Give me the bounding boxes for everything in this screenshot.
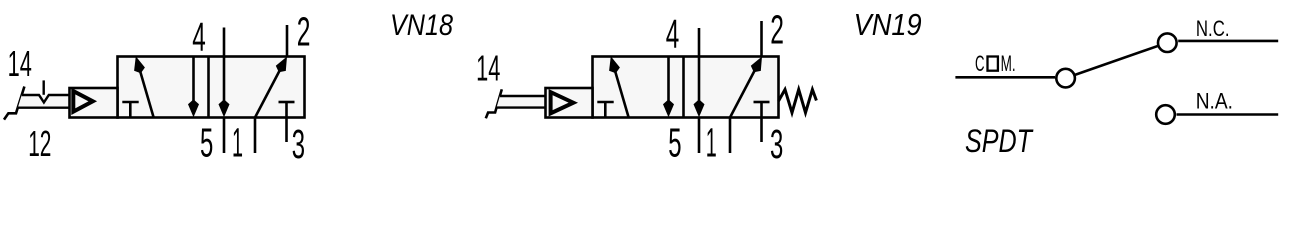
valve V2 left box vertical flow arrow [663,57,674,118]
valve V1 port 4 label [192,14,206,60]
svg-text:VN18: VN18 [390,9,453,42]
valve V1 position divider [207,57,210,118]
valve V2 right box diagonal flow arrow (1 to 2) [730,57,762,118]
valve V2 port 3 label [770,121,783,167]
svg-text:14: 14 [8,43,32,84]
valve V2 pilot port 14 label [476,48,500,89]
valve V2 left box blocked port T [597,102,613,118]
valve V2 port 2 stub [760,21,763,57]
svg-text:N.C.: N.C. [1196,16,1230,41]
valve V2 port 4 stub [698,28,701,57]
svg-text:SPDT: SPDT [965,123,1034,159]
valve V1 port 5 stub [223,118,226,154]
svg-text:VN19: VN19 [854,7,922,42]
svg-text:C: C [975,51,985,76]
svg-text:N.A.: N.A. [1196,88,1233,113]
valve V1 plunger bar with detent notch [18,95,70,108]
switch S1 N.A. label [1196,88,1233,113]
switch S1 COM wire [955,76,1055,79]
switch S1 N.A. wire [1177,113,1279,116]
valve V1 port 1 label [232,120,243,166]
valve V1 port 2 label [297,9,311,55]
svg-text:4: 4 [666,11,680,57]
valve V1 port 3 stub [285,118,288,143]
switch S1 COM contact circle [1056,69,1075,88]
valve V2 port 5 label [668,120,681,166]
valve V1 pilot port 14 label [8,43,32,84]
valve V2 (VN19) 5/2-way valve body [593,57,779,118]
svg-text:M.: M. [1001,51,1016,76]
valve V2 port 1 stub [729,118,732,154]
valve V2 left box diagonal flow arrow [609,56,628,117]
svg-text:1: 1 [232,120,243,165]
svg-text:3: 3 [292,121,305,165]
switch S1 COM label (square O) [975,51,1016,76]
svg-text:1: 1 [706,120,717,165]
valve V2 pneumatic pilot box [546,88,593,118]
valve V2 position divider [682,57,685,118]
valve V1 left box diagonal flow arrow [134,56,153,117]
valve V2 return spring [779,90,817,113]
switch S1 N.C. label [1196,16,1230,41]
valve V1 right box blocked port T [279,102,295,118]
switch S1 N.A. contact circle [1156,105,1175,124]
switch S1 pole lever wire [1066,43,1168,78]
valve V2 port 1 label [706,120,717,166]
svg-text:4: 4 [192,14,206,60]
valve V2 right box vertical flow arrow (4 to 5) [694,57,705,118]
valve V2 port 4 label [666,11,680,57]
valve V1 pneumatic pilot box [70,88,118,118]
valve V1 manual lever [4,87,24,120]
valve V1 port 4 stub [223,28,226,57]
valve V2 port 5 stub [698,118,701,154]
valve V1 left box vertical flow arrow [188,57,199,118]
label VN19 [854,7,922,42]
valve V1 pilot triangle [73,91,93,112]
switch S1 N.C. contact circle [1158,33,1177,52]
svg-text:2: 2 [770,7,784,53]
valve V2 manual lever [486,89,502,118]
valve V2 plunger bar [497,96,546,108]
label VN18 [390,9,453,42]
valve V1 port 5 label [200,120,213,166]
valve V1 port 1 stub [254,118,257,154]
svg-text:2: 2 [297,9,311,55]
svg-text:12: 12 [28,123,51,164]
label SPDT [965,123,1034,159]
valve V2 pilot triangle [551,92,574,113]
svg-text:3: 3 [770,121,783,165]
valve V1 detent pin [43,80,45,94]
valve V1 port 2 stub [286,25,289,57]
valve V1 (VN18) 5/2-way valve body [118,57,305,118]
valve V1 left box blocked port T [122,102,138,118]
valve V2 right box blocked port T [754,102,770,118]
valve V1 right box vertical flow arrow (4 to 5) [219,57,230,118]
valve V2 port 3 stub [760,118,763,143]
valve V1 pilot port 12 label [28,123,51,164]
valve V1 right box diagonal flow arrow (1 to 2) [255,57,287,118]
svg-text:5: 5 [200,120,213,165]
valve V1 port 3 label [292,121,305,167]
svg-text:5: 5 [668,120,681,165]
valve V2 port 2 label [770,7,784,53]
svg-text:14: 14 [476,48,500,89]
switch S1 N.C. wire [1178,40,1278,43]
